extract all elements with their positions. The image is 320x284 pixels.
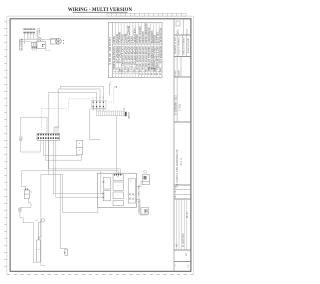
ladder wire down to relay top box <box>115 116 117 175</box>
svg-text:DIS. N. 46428/02: DIS. N. 46428/02 <box>174 38 176 56</box>
motor M1 with box <box>51 38 62 44</box>
legend description texts (lower band) <box>112 46 163 71</box>
title block left edge <box>173 19 175 271</box>
K0 bottom pins <box>32 44 45 48</box>
connector J2 pins <box>93 101 104 107</box>
svg-text:VISTO: VISTO <box>174 71 176 78</box>
relay mid box i <box>113 182 123 190</box>
relay cluster outer box <box>98 173 137 207</box>
left connector row C2 outline <box>37 133 60 140</box>
relay bottom small box <box>113 201 123 206</box>
right box pin crosses <box>129 193 134 200</box>
left box pin crosses <box>102 181 104 199</box>
2-pin connector K1 <box>24 190 29 198</box>
relay left box 2 <box>103 191 110 201</box>
svg-text:COD. 46808500 /1: COD. 46808500 /1 <box>174 95 177 116</box>
small box B2cells <box>76 140 82 154</box>
svg-text:M: M <box>150 69 152 71</box>
wire LA from C2 to relay top box <box>48 140 120 174</box>
title block cell A internals <box>176 19 184 35</box>
relay left box 1 <box>103 178 110 190</box>
svg-text:AR: AR <box>118 69 121 72</box>
TS1 dark end cell <box>125 112 127 116</box>
svg-text:CENTR.: CENTR. <box>127 112 129 120</box>
svg-text:DISEGNO DI: DISEGNO DI <box>181 234 183 248</box>
C2 top entry wires <box>54 127 60 133</box>
title block cell C text <box>174 71 180 78</box>
small box D2 right bottom <box>141 208 149 215</box>
K0 pin tails <box>32 48 50 51</box>
K1 wires <box>20 186 31 208</box>
bus wires <box>21 39 56 41</box>
connector J2 label <box>91 97 103 98</box>
cluster right wires to small boxes <box>136 181 147 215</box>
svg-text:R 1.3: R 1.3 <box>185 29 188 35</box>
svg-text:1: 1 <box>91 97 93 98</box>
svg-text:CAVO GIALLO: CAVO GIALLO <box>137 185 140 199</box>
connector K0 strip <box>31 41 45 48</box>
title block fine column grid <box>176 199 186 250</box>
relay right tall box <box>128 179 135 203</box>
antenna assembly <box>36 219 45 262</box>
component R2 bottom <box>65 249 68 255</box>
relay cluster top connector box <box>113 175 123 181</box>
svg-text:FIAT: FIAT <box>176 30 179 36</box>
svg-text:BN: BN <box>127 69 129 72</box>
inline connector A2 <box>19 208 21 212</box>
legend table frame <box>108 23 162 78</box>
wire staircase into J2: middle, continues down to C2 <box>58 89 100 127</box>
wires from X1 down to bus <box>24 33 33 39</box>
pump symbol P1 <box>37 38 41 42</box>
inline connector A1 <box>20 137 22 141</box>
title block revision rows <box>174 190 191 195</box>
relay mid box c <box>113 192 123 199</box>
outer border <box>7 16 194 274</box>
title block dividers <box>174 35 191 262</box>
inner frame <box>10 19 191 271</box>
svg-text:SCALA 1:1 FOG.1: SCALA 1:1 FOG.1 <box>177 38 180 57</box>
border fold ticks left <box>4 21 7 266</box>
title block cell D <box>176 77 178 122</box>
wire from A2 to bottom <box>20 212 37 263</box>
small box D1 right top <box>142 175 149 185</box>
title block cell B internals <box>177 35 186 57</box>
svg-text:LEGEND WIRES: LEGEND WIRES <box>108 37 112 65</box>
sheet title <box>68 8 133 13</box>
svg-text:TAV. 1: TAV. 1 <box>177 104 180 111</box>
title block cell B text <box>174 38 190 57</box>
svg-text:IC 1.9D: IC 1.9D <box>179 158 181 166</box>
title block bottom cells <box>174 253 189 268</box>
K0 entry wire <box>33 41 35 42</box>
svg-text:ROSA NERO: ROSA NERO <box>159 28 163 43</box>
legend table band lines <box>112 44 162 46</box>
svg-text:2: 2 <box>95 97 97 98</box>
J2 to ladder wires <box>93 107 103 111</box>
svg-text:CAVO ROSSO: CAVO ROSSO <box>137 200 140 214</box>
dashed harness path to J2 pin 1 <box>41 88 114 134</box>
connector J2 outline <box>92 101 107 109</box>
top ruler comb strip <box>107 13 186 16</box>
lower-left big box B5 <box>41 175 98 266</box>
legend colour code texts <box>112 69 161 73</box>
wire staircase into J2: inner, from motor dots <box>61 86 104 100</box>
wire staircase into J2: outer <box>49 92 97 174</box>
svg-text:TAVOLA UNICA: TAVOLA UNICA <box>186 38 189 54</box>
svg-text:APPR.: APPR. <box>177 71 180 78</box>
C2 exit wires staggered <box>41 140 104 197</box>
connector X1 pins top-left <box>24 28 35 33</box>
terminal strip TS1 <box>96 111 124 116</box>
title block cell C internals <box>177 57 181 78</box>
svg-text:G: G <box>135 69 137 71</box>
C2 pins <box>38 134 59 139</box>
legend table column lines <box>115 23 159 78</box>
J2 underline and left drop <box>90 108 106 110</box>
wire left long down <box>21 117 47 136</box>
note marker under legend <box>110 84 112 95</box>
svg-text:MEMORIA +30: MEMORIA +30 <box>159 46 163 64</box>
svg-text:AUTORADIO DEL PUNTO 1.2: AUTORADIO DEL PUNTO 1.2 <box>175 150 179 188</box>
wire W-left2 full <box>22 171 119 194</box>
svg-text:VN: VN <box>132 69 134 72</box>
svg-text:DATA 10.02.1999: DATA 10.02.1999 <box>182 38 185 56</box>
wire W-left1 stub <box>23 39 25 44</box>
svg-text:4: 4 <box>102 97 104 98</box>
legend number texts <box>112 73 161 76</box>
svg-text:3: 3 <box>98 97 100 98</box>
dashed box around X1 drop wires <box>28 34 38 38</box>
title block cell E main name <box>175 150 181 188</box>
legend colour name texts (upper band) <box>112 23 163 44</box>
legend table header band <box>111 23 113 78</box>
wire below A1 to y152 <box>21 141 41 153</box>
terminal dot wire <box>114 86 116 88</box>
svg-text:N. 46: N. 46 <box>185 213 187 219</box>
